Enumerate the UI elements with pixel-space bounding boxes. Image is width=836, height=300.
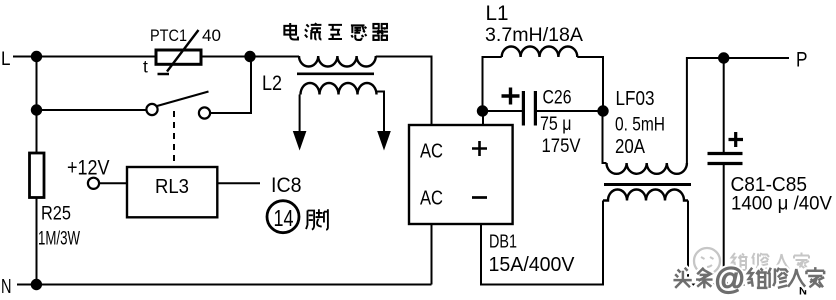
wire CT secondary right lead — [377, 92, 385, 133]
wire LF03 upper left lead — [603, 111, 607, 163]
svg-text:t: t — [143, 57, 148, 77]
wire R25 to N rail — [36, 198, 38, 285]
svg-text:1M/3W: 1M/3W — [38, 228, 80, 250]
wire L1 left bracket — [483, 57, 502, 111]
node junction dot L-rail — [31, 51, 42, 62]
svg-text:L: L — [1, 48, 11, 70]
capacitor C81 polarity plus — [729, 132, 744, 147]
wire LF03 upper right lead to P rail — [687, 58, 789, 163]
wire C81 top lead — [723, 58, 725, 152]
node pin jiao glyph — [306, 209, 328, 229]
svg-text:C26: C26 — [543, 87, 572, 109]
svg-text:3.7mH/18A: 3.7mH/18A — [485, 24, 583, 46]
relay switch contact left — [146, 104, 157, 115]
svg-text:L2: L2 — [262, 72, 282, 95]
transformer CT primary winding — [299, 56, 376, 67]
wire to relay switch — [37, 109, 147, 111]
watermark row 2 halo — [673, 261, 824, 296]
svg-text:175V: 175V — [542, 135, 581, 157]
wire C81 bottom lead — [723, 165, 725, 285]
wire L rail left — [13, 56, 156, 58]
svg-text:PTC1: PTC1 — [150, 26, 187, 45]
node junction dot N out rail — [719, 280, 728, 289]
node junction dot plus node right — [597, 105, 608, 116]
wire CT to rectifier — [376, 57, 432, 126]
thermistor PTC1 slash — [158, 30, 199, 74]
svg-text:15A/400V: 15A/400V — [489, 254, 576, 276]
wire switch to PTC output — [210, 57, 251, 114]
wire +12V to RL3 — [99, 182, 127, 184]
resistor R25 body — [30, 153, 45, 198]
arrow CT secondary right — [377, 131, 391, 151]
wire rectifier minus output — [481, 201, 603, 285]
rectifier DB1 box — [409, 125, 513, 224]
svg-text:P: P — [796, 49, 808, 72]
wire L1 right bracket — [577, 57, 603, 111]
svg-text:+12V: +12V — [67, 156, 110, 180]
svg-text:1400 μ /40V: 1400 μ /40V — [731, 193, 832, 215]
capacitor C81-C85 plates — [708, 154, 743, 164]
svg-text:AC: AC — [420, 188, 443, 210]
wire rectifier AC2 to N rail — [431, 224, 433, 285]
svg-text:20A: 20A — [615, 136, 646, 158]
node junction dot N rail — [31, 279, 42, 290]
relay RL3 box — [127, 167, 217, 217]
node pin 14 circle — [267, 201, 299, 233]
wire RL3 to IC8 — [217, 182, 260, 184]
svg-text:RL3: RL3 — [155, 176, 189, 198]
svg-text:AC: AC — [420, 141, 443, 163]
relay switch blade — [157, 92, 209, 107]
svg-text:IC8: IC8 — [271, 174, 302, 197]
wire dashed relay linkage — [173, 111, 175, 167]
transformer CT label 电流互感器 — [284, 23, 388, 40]
svg-text:75 μ: 75 μ — [540, 113, 572, 135]
svg-text:14: 14 — [274, 205, 294, 231]
relay switch contact right — [199, 107, 210, 118]
svg-text:N: N — [1, 276, 12, 298]
inductor LF03 core — [604, 183, 691, 186]
wire N rail — [17, 284, 432, 286]
inductor L1 winding — [502, 46, 578, 57]
node junction dot plus node left — [477, 105, 488, 116]
watermark row 2 dark — [673, 261, 824, 296]
transformer CT secondary winding — [301, 83, 377, 95]
inductor LF03 upper winding — [607, 163, 687, 174]
wire plus node rail — [483, 110, 604, 112]
transformer CT core — [297, 73, 374, 76]
wire CT secondary left lead — [299, 95, 301, 133]
node junction dot P rail — [718, 52, 729, 63]
wire rectifier plus output — [482, 111, 484, 125]
svg-text:DB1: DB1 — [489, 231, 517, 252]
wire PTC to CT — [201, 56, 299, 58]
svg-text:@: @ — [714, 261, 745, 296]
watermark row 1 halo — [694, 248, 809, 274]
svg-text:LF03: LF03 — [616, 88, 655, 110]
svg-text:40: 40 — [202, 26, 221, 45]
resistor R25 branch wire — [36, 110, 38, 153]
svg-text:L1: L1 — [486, 2, 509, 25]
capacitor C26 polarity plus — [502, 88, 520, 105]
node junction dot after PTC — [244, 51, 255, 62]
inductor LF03 lower winding — [603, 190, 688, 201]
wire LF03 lower right lead to N out — [688, 201, 790, 285]
arrow CT secondary left — [293, 131, 307, 151]
node junction dot switch branch — [31, 104, 42, 115]
thermistor PTC1/40 body — [156, 50, 201, 64]
watermark row 1 light — [694, 248, 809, 274]
capacitor C26 plates — [523, 91, 535, 126]
svg-text:R25: R25 — [41, 203, 71, 225]
svg-text:0. 5mH: 0. 5mH — [615, 114, 665, 136]
wire branch down from L rail — [36, 57, 38, 111]
node +12V terminal — [88, 178, 99, 189]
